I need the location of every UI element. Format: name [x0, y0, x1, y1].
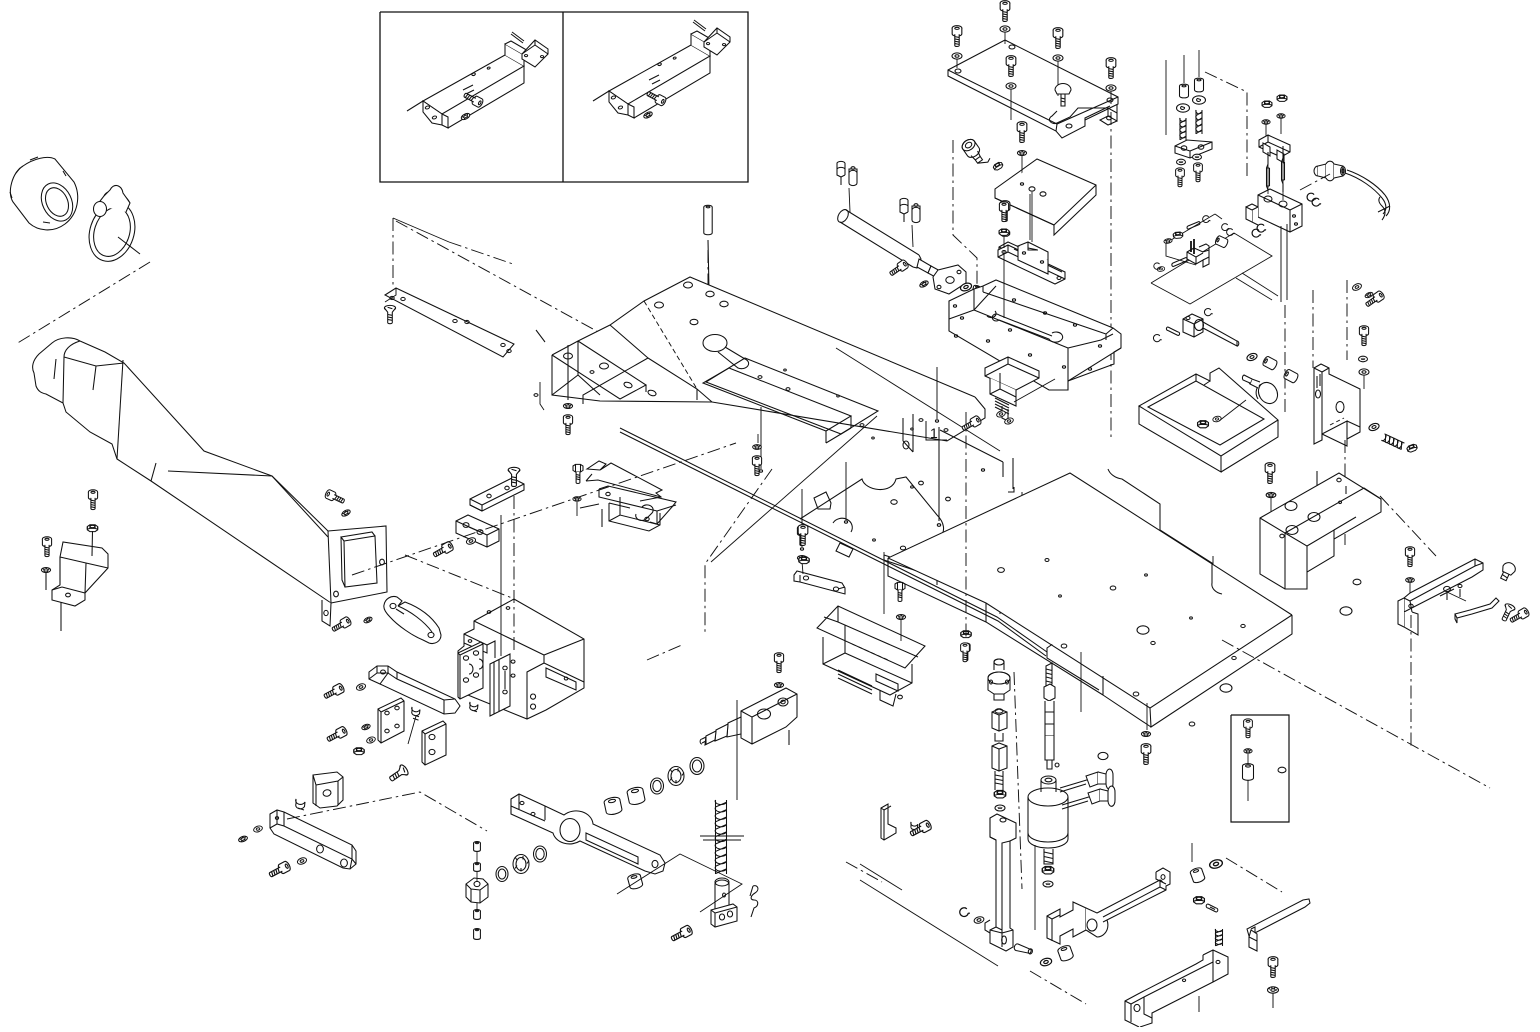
valve e-ring 3	[1257, 224, 1266, 232]
stand-off collar 1	[1180, 84, 1189, 98]
leader	[1282, 150, 1284, 200]
label bracket	[926, 421, 947, 440]
cyl elbow fitting 1	[1060, 769, 1113, 792]
plate flat screw	[508, 467, 520, 486]
rocker spacer	[1190, 867, 1206, 884]
feed lever arm	[511, 794, 665, 874]
long leader 1	[500, 515, 502, 656]
hex standoff	[992, 709, 1007, 741]
wire clamp lever	[1398, 559, 1483, 635]
rubber sleeve	[10, 157, 79, 230]
plate leader	[567, 345, 569, 400]
vertical center line mid	[965, 412, 967, 640]
strip hole	[390, 296, 394, 299]
strip washer	[363, 616, 373, 624]
leader pin tip	[844, 521, 847, 523]
strip hole 4	[465, 320, 469, 323]
Z-bracket washer	[1359, 369, 1369, 375]
spacer plate screw	[797, 526, 806, 546]
bracket screw br	[1268, 957, 1278, 978]
rail screw top	[999, 202, 1008, 222]
air cylinder	[835, 208, 949, 285]
mid screw	[752, 456, 761, 476]
strip hole 3	[453, 319, 457, 322]
base screw	[1141, 744, 1151, 765]
ring set 4	[496, 867, 508, 882]
box diag center line	[405, 555, 512, 598]
plane edge 2	[449, 242, 513, 264]
bracket center line 2	[1346, 280, 1348, 360]
magnet bracket (detail A)	[407, 41, 530, 128]
leader	[1003, 236, 1005, 248]
arm mount lock washer	[341, 509, 351, 518]
return spring	[1381, 434, 1404, 450]
flange washer	[959, 282, 972, 293]
lower slide bar	[270, 810, 356, 869]
guard strip	[384, 596, 441, 643]
long link rod	[1247, 899, 1310, 936]
oil tray	[1139, 368, 1278, 472]
leader	[1247, 754, 1249, 764]
spring seat line 2	[703, 839, 741, 841]
bracket nut c	[1000, 230, 1009, 236]
bracket screw c	[1000, 201, 1010, 222]
leader	[1110, 91, 1112, 104]
cover washer 1	[1000, 26, 1010, 32]
bearing ring 2	[513, 855, 529, 874]
cyl center line	[1014, 672, 1022, 889]
leader	[1219, 400, 1246, 421]
stack pin 2	[474, 863, 481, 872]
mid vertical center line 2	[999, 509, 1001, 614]
stack pin 3	[474, 910, 481, 920]
L bracket screw	[911, 822, 918, 831]
link roller	[1214, 235, 1228, 248]
leader pin tip	[1078, 556, 1081, 558]
guide screw	[1508, 607, 1530, 625]
clamp screw (detail B)	[645, 89, 667, 106]
leader	[956, 59, 958, 68]
spring seat plate	[1175, 140, 1212, 158]
leader	[1165, 60, 1167, 135]
lift air cylinder	[1028, 776, 1068, 864]
wedge set screw	[296, 799, 305, 810]
wedge piece	[313, 772, 343, 808]
small L bracket 2	[881, 804, 896, 840]
lock washer (detail B)	[643, 111, 653, 120]
slide e-ring	[959, 907, 970, 917]
plane edge	[393, 218, 449, 242]
rocker nut	[1194, 897, 1205, 904]
carriage diag line	[647, 644, 684, 660]
needle plate posts	[903, 414, 1014, 492]
stack screw 2	[1194, 163, 1203, 182]
bar washer 3	[297, 857, 308, 866]
plane notch b	[1236, 278, 1272, 300]
stop plate screw	[387, 764, 409, 785]
leader	[1198, 996, 1200, 1012]
link nut	[1173, 232, 1183, 239]
rail nut	[999, 229, 1009, 235]
lever diag line	[1380, 496, 1436, 556]
R-clip	[750, 886, 758, 917]
base washer	[1141, 732, 1150, 737]
link spring	[1215, 929, 1222, 946]
valve e-ring 2	[1312, 198, 1321, 206]
reed sensor (detail A)	[511, 32, 548, 67]
linear rail	[998, 242, 1065, 284]
top screw	[1364, 290, 1385, 309]
long leader 2	[513, 496, 515, 650]
dowel center line	[707, 250, 709, 292]
cover hex bolt	[573, 464, 583, 483]
feed arm duct	[33, 338, 387, 626]
valve e-ring 1	[1307, 193, 1316, 201]
push nut 1	[1177, 159, 1186, 165]
wire needle 2	[1282, 146, 1285, 192]
feed plate nut	[799, 557, 809, 564]
plunger pin	[715, 878, 729, 910]
plane tick	[1215, 214, 1222, 219]
strip hole 6	[507, 349, 511, 352]
arm bushing 2	[603, 796, 622, 816]
stack pin 1	[474, 842, 481, 852]
top washer 2	[1364, 291, 1373, 299]
leader	[802, 561, 803, 574]
leader	[1010, 89, 1012, 120]
bottom plane dd1	[1030, 971, 1086, 1004]
dowel leader	[708, 240, 709, 290]
bracket center line 3	[1344, 440, 1346, 545]
carriage housing	[458, 599, 584, 719]
bar screw	[432, 541, 455, 560]
plunger clamp	[711, 904, 737, 927]
needle nut 2	[1277, 95, 1287, 101]
cyl push nut	[1043, 881, 1053, 887]
leader	[883, 552, 885, 614]
plane line 2	[860, 880, 998, 966]
rod push nut	[995, 805, 1005, 811]
cover screw 2	[952, 26, 962, 47]
pressure spring 1	[1180, 118, 1186, 140]
valve leader b	[1286, 224, 1288, 300]
plunger plane	[617, 854, 742, 912]
thread tension block	[1246, 189, 1302, 232]
long center line right	[1110, 112, 1112, 440]
link washer 1	[1164, 238, 1173, 244]
leader	[1280, 118, 1282, 134]
L bracket cap screw	[909, 819, 933, 838]
guide washer	[896, 615, 905, 620]
pivot washer	[1368, 422, 1380, 432]
bar mount washer	[355, 682, 366, 691]
link e-ring 3	[1154, 263, 1161, 269]
lever center line	[1410, 615, 1412, 748]
leader	[1363, 375, 1365, 389]
tray washer	[1212, 415, 1222, 422]
cover washer	[573, 497, 581, 502]
ring set	[690, 758, 704, 775]
wire guide finger	[1455, 598, 1499, 623]
nut leader	[91, 531, 94, 556]
detail center line long	[396, 221, 613, 340]
leader	[1191, 843, 1193, 862]
spacer plate	[794, 571, 845, 594]
bed lock washer	[563, 404, 572, 409]
spring leader	[736, 700, 738, 800]
spring diag line	[846, 862, 882, 882]
fork bushing	[1057, 944, 1074, 962]
small screw	[961, 643, 970, 662]
shaft e-ring 1	[1153, 335, 1161, 342]
fitting nut	[993, 161, 1004, 171]
link pin upper	[1187, 222, 1200, 230]
pivot nut	[466, 878, 488, 903]
spacer plate washer	[797, 556, 806, 561]
leader pin tip	[935, 420, 938, 422]
leader pin	[845, 462, 847, 520]
leader	[476, 903, 478, 909]
presser spring	[715, 800, 726, 874]
carriage side plates	[490, 654, 510, 716]
cover screw 5	[1106, 58, 1116, 79]
slide pin screw	[1013, 943, 1033, 955]
bracket lock washer	[41, 568, 50, 573]
leader	[1057, 61, 1059, 96]
bar plane line	[287, 792, 487, 831]
bar washer	[466, 537, 477, 546]
leader	[757, 434, 759, 443]
block washer top	[774, 683, 783, 688]
block screw top	[774, 653, 783, 673]
speed controller fitting 2	[900, 198, 920, 222]
tension release link	[1187, 239, 1209, 267]
stop bar	[456, 515, 499, 547]
svg-text:1: 1	[930, 425, 938, 441]
sensor L-bracket	[52, 542, 108, 631]
dowel pin	[704, 205, 712, 235]
leader	[1080, 652, 1082, 712]
adjust threaded rod	[1044, 663, 1055, 769]
cover washer 2	[952, 53, 962, 59]
block screw	[1265, 463, 1275, 484]
strip screw	[330, 616, 352, 634]
arm bushing 1	[626, 786, 645, 806]
sleeve center line	[16, 262, 150, 344]
mid washer	[753, 445, 762, 450]
cyl elbow fitting 2	[1062, 786, 1115, 809]
lower clamp piece	[985, 357, 1039, 421]
leader	[900, 620, 902, 641]
guide hex bolt	[895, 582, 905, 601]
arm mount screw	[324, 489, 346, 506]
leader	[1034, 845, 1036, 930]
rocker washer	[1209, 858, 1224, 869]
cross leader	[711, 416, 877, 562]
clamp washer a	[996, 410, 1006, 418]
shaft washer	[1246, 352, 1258, 362]
junction set screw	[412, 707, 420, 720]
cup washer 2	[1193, 96, 1206, 104]
leader	[408, 716, 416, 744]
leader pin	[801, 489, 803, 547]
bar washer 1	[253, 825, 263, 833]
stand-off collar 2	[1195, 78, 1204, 92]
fitting leader 1	[849, 188, 850, 212]
lever bushing small	[627, 873, 643, 890]
leader pin	[1212, 556, 1214, 611]
junction plate	[378, 698, 404, 743]
tray nut	[1198, 421, 1209, 428]
knurled knob	[1242, 375, 1281, 407]
clamp washer b	[1004, 417, 1014, 425]
carriage set screw	[470, 702, 478, 712]
leader	[1270, 498, 1272, 512]
inset frame divider	[562, 12, 564, 182]
leader	[476, 872, 478, 882]
plunger screw	[670, 924, 694, 943]
shaft spacer 1	[1262, 356, 1278, 371]
clamp leader diag	[1014, 379, 1055, 402]
guide flat screw	[1499, 603, 1516, 623]
cyl rod nut	[1042, 866, 1053, 873]
shaft pin	[1166, 327, 1179, 336]
junction washer 1	[361, 723, 371, 730]
detail screw	[1244, 719, 1253, 738]
leader pin tip	[1137, 613, 1140, 615]
connecting bar	[369, 666, 460, 714]
lock washer (detail A)	[460, 112, 470, 121]
shaft spacer 2	[1283, 369, 1299, 384]
leader pin tip	[1020, 555, 1023, 557]
cover washer 4	[1006, 83, 1016, 89]
stack plane line	[1205, 72, 1247, 180]
threaded hex rod	[992, 743, 1007, 790]
leader	[576, 502, 578, 516]
plane notch a	[1242, 273, 1278, 296]
assy leader long	[836, 348, 1000, 451]
junction screw	[325, 726, 348, 744]
slide washer	[973, 916, 984, 925]
link e-ring 1	[1222, 224, 1230, 231]
leader pin tip	[759, 470, 762, 472]
speed controller fitting 1	[837, 161, 857, 185]
link e-ring 2	[1227, 229, 1235, 236]
hose clamp	[82, 185, 142, 267]
reed sensor (detail B)	[693, 20, 730, 55]
junction washer 2	[366, 736, 376, 744]
stop plate	[422, 721, 446, 765]
valve mount plate	[995, 159, 1096, 235]
detail spacer	[1243, 764, 1254, 781]
linkage plane	[1151, 233, 1272, 304]
leader	[1272, 993, 1274, 1008]
link pin lower	[1172, 258, 1187, 267]
clamp thumb screw	[1501, 561, 1518, 581]
washer leader	[45, 573, 47, 590]
ring set 3	[534, 846, 547, 862]
small detail frame	[1231, 715, 1289, 822]
cover nut	[961, 631, 971, 638]
spring seat line	[700, 835, 744, 837]
sensor strip plate	[385, 288, 514, 357]
link strap	[1049, 104, 1117, 125]
cover screw 1	[1000, 1, 1010, 22]
bar mount screw	[322, 683, 345, 701]
pressure spring 2	[1196, 110, 1202, 134]
leader line	[540, 382, 544, 410]
junction nut	[354, 748, 364, 755]
bottom plane dd2	[1226, 858, 1282, 892]
bracket screw 2	[42, 537, 51, 557]
wire needle 1	[1267, 152, 1270, 198]
center line left	[953, 140, 977, 294]
leader pin tip	[1211, 612, 1214, 614]
cover screw 4	[1006, 56, 1016, 77]
needle washer 2	[1277, 114, 1285, 119]
cover washer 3	[1053, 55, 1063, 61]
leader	[1247, 780, 1249, 801]
cylinder Z-bracket	[1314, 364, 1360, 446]
cover screw	[962, 643, 970, 661]
thumb screw	[1055, 84, 1071, 107]
rocker pin	[1206, 904, 1218, 912]
regulator fitting	[960, 135, 991, 169]
spacer	[367, 683, 369, 685]
fork washer	[1040, 957, 1053, 967]
sensor rail bracket	[999, 242, 1039, 267]
push nut 2	[1193, 154, 1202, 160]
leader pin	[1079, 493, 1081, 555]
leader pin tip	[800, 548, 803, 550]
switch cover plate	[948, 40, 1118, 138]
valve plate washer	[1017, 151, 1026, 156]
feed base plate	[620, 427, 1099, 690]
valve center line down	[1284, 305, 1286, 415]
lever screw	[1405, 547, 1414, 567]
leader pin	[936, 367, 938, 419]
strip hole 2	[401, 297, 405, 300]
flange spacer	[972, 285, 981, 296]
right diag center line	[1222, 640, 1490, 788]
leader	[1021, 156, 1023, 186]
bar washer 2	[238, 835, 248, 843]
lever washer	[1406, 578, 1415, 583]
valve e-ring 4	[1252, 229, 1261, 237]
needle clamp bar	[1259, 135, 1290, 163]
cylinder mount plate	[949, 280, 1121, 390]
stack pin 4	[474, 929, 481, 940]
leader	[1447, 592, 1466, 601]
push nut z	[1359, 356, 1368, 362]
leader pin	[1138, 554, 1140, 612]
stack screw 1	[1176, 168, 1185, 187]
leader pin	[760, 407, 762, 469]
cyl washer	[919, 280, 929, 289]
magnet bracket (detail B)	[593, 31, 716, 118]
block lock washer	[1266, 492, 1276, 497]
main diag center line	[352, 443, 736, 575]
clamp screw	[960, 415, 982, 433]
rail leader	[1003, 250, 1005, 318]
lift bracket	[1125, 950, 1228, 1027]
feed plate screw	[798, 525, 808, 546]
hook base block	[1260, 471, 1381, 589]
clevis fork arm	[1047, 868, 1170, 944]
cylinder flange	[933, 265, 966, 294]
leader	[476, 851, 478, 862]
cyl mount screw	[888, 259, 909, 278]
